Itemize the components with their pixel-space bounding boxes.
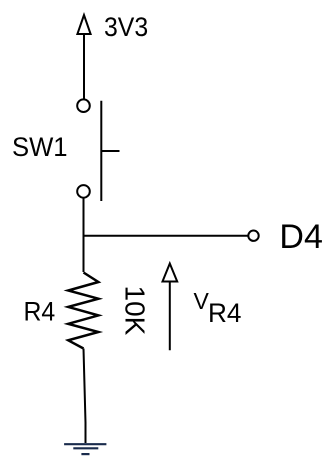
- svg-text:10K: 10K: [120, 286, 151, 336]
- switch SW1: [77, 99, 119, 201]
- wire resistor R4 to ground: [84, 349, 86, 444]
- wire SW1 pin 2 to resistor R4: [83, 198, 85, 272]
- wire 3V3 to SW1 pin 1: [83, 34, 85, 99]
- svg-text:R4: R4: [24, 298, 56, 327]
- svg-text:R4: R4: [208, 298, 241, 328]
- annotation arrow V_R4: [163, 264, 178, 351]
- svg-text:D4: D4: [279, 218, 322, 256]
- power symbol 3V3: [77, 15, 90, 34]
- svg-text:SW1: SW1: [12, 131, 68, 162]
- pin D4 terminal circle: [248, 231, 258, 241]
- ground: [64, 444, 106, 454]
- resistor R4: [68, 273, 98, 349]
- svg-text:3V3: 3V3: [104, 13, 148, 42]
- wire node to pin D4: [84, 235, 249, 237]
